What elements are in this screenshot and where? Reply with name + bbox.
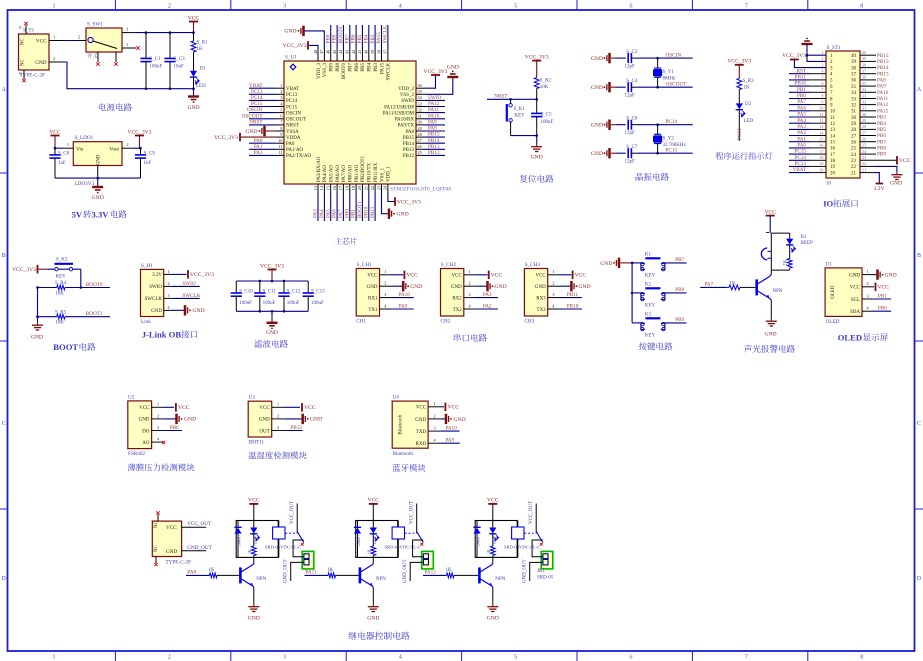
relay ground GND xyxy=(367,604,379,622)
svg-text:PB8: PB8 xyxy=(877,146,886,152)
svg-text:OSCIN: OSCIN xyxy=(286,111,301,116)
relay unit black frame xyxy=(356,521,398,558)
svg-text:PB8: PB8 xyxy=(336,63,341,72)
svg-text:A: A xyxy=(917,87,922,93)
svg-text:26: 26 xyxy=(862,137,866,142)
svg-text:PA2: PA2 xyxy=(797,130,806,136)
svg-text:PB5: PB5 xyxy=(357,34,363,43)
relay indicator LED xyxy=(489,521,498,545)
CH1 pin1 VCC port xyxy=(390,271,418,280)
svg-text:2: 2 xyxy=(168,655,171,661)
svg-text:S_C3: S_C3 xyxy=(174,57,186,62)
svg-text:6: 6 xyxy=(280,114,282,119)
CH2 pin1 VCC port xyxy=(475,271,503,280)
svg-text:GND_OUT: GND_OUT xyxy=(187,545,212,551)
chip pin 15 PA5/AO xyxy=(325,165,334,221)
MCU U1 STM32F103C8T6 body xyxy=(284,55,451,193)
header row pins 8 and 33 xyxy=(789,93,889,102)
J-Link pin2 SWIO net xyxy=(172,281,200,287)
chip pin 10 PA0 xyxy=(249,138,295,147)
svg-text:17: 17 xyxy=(338,186,343,190)
svg-text:TX2: TX2 xyxy=(453,308,463,313)
svg-text:BOOT0: BOOT0 xyxy=(338,26,344,43)
svg-text:21: 21 xyxy=(862,167,866,172)
svg-text:PB14: PB14 xyxy=(877,65,889,71)
svg-text:S_LDO1: S_LDO1 xyxy=(75,135,94,141)
svg-text:1N4007: 1N4007 xyxy=(477,535,481,547)
svg-text:38: 38 xyxy=(851,66,857,71)
relay coil xyxy=(273,521,285,558)
svg-text:13: 13 xyxy=(313,186,318,190)
svg-text:VCC: VCC xyxy=(535,274,546,279)
svg-text:VCC_OUT: VCC_OUT xyxy=(529,501,534,524)
svg-text:2: 2 xyxy=(53,56,55,61)
svg-text:PB12: PB12 xyxy=(877,53,889,59)
svg-text:SWCLK: SWCLK xyxy=(182,293,200,299)
svg-text:PA10/RX: PA10/RX xyxy=(395,118,415,123)
svg-text:PA9: PA9 xyxy=(877,84,886,90)
chip pin 47 VSS_3 xyxy=(319,49,328,77)
svg-text:S_C8: S_C8 xyxy=(58,152,70,157)
svg-text:36: 36 xyxy=(862,75,866,80)
svg-text:SWIO: SWIO xyxy=(401,99,414,104)
svg-text:PB15: PB15 xyxy=(403,136,415,141)
flyback diode 1N4007 xyxy=(354,521,361,558)
svg-text:6: 6 xyxy=(630,3,633,9)
svg-text:3: 3 xyxy=(821,62,823,67)
svg-text:PB11/RX: PB11/RX xyxy=(374,162,379,182)
wire terminal pin2 GND_OUT xyxy=(284,559,304,583)
svg-text:8MHz: 8MHz xyxy=(663,77,677,82)
svg-text:5: 5 xyxy=(514,3,517,9)
svg-text:PC15: PC15 xyxy=(666,148,678,154)
svg-text:GND: GND xyxy=(885,272,897,278)
label 主芯片 xyxy=(335,238,342,245)
svg-text:SRD-05VDC-SL-C: SRD-05VDC-SL-C xyxy=(385,545,421,550)
label 继电器控制电路 xyxy=(348,632,356,640)
svg-text:SRD-05VDC-SL-C: SRD-05VDC-SL-C xyxy=(265,545,301,550)
svg-text:28: 28 xyxy=(851,128,857,133)
svg-text:GND: GND xyxy=(92,195,104,201)
svg-text:100uF: 100uF xyxy=(311,301,324,306)
label 电源电路 xyxy=(99,103,106,111)
svg-text:22: 22 xyxy=(862,161,866,166)
LED D2 xyxy=(736,102,754,141)
capacitor S_C9 1uF xyxy=(135,147,155,178)
svg-text:PB10/TX: PB10/TX xyxy=(368,162,373,182)
svg-text:OSCIN: OSCIN xyxy=(247,107,263,113)
svg-text:PB14: PB14 xyxy=(428,138,440,144)
relay base resistor 1K xyxy=(209,568,240,578)
key K1 wire to net PB7 xyxy=(663,257,686,263)
svg-text:20: 20 xyxy=(830,171,836,176)
svg-text:VCC: VCC xyxy=(166,525,177,531)
relay contact and VCC_OUT feed xyxy=(405,501,424,546)
svg-text:6: 6 xyxy=(630,655,633,661)
svg-text:OSCOUT: OSCOUT xyxy=(666,82,688,88)
push button S_K1 KEY xyxy=(507,98,526,136)
svg-text:GND: GND xyxy=(578,284,590,290)
svg-text:40: 40 xyxy=(851,54,857,59)
svg-text:22: 22 xyxy=(851,165,857,170)
svg-text:GND: GND xyxy=(415,418,426,423)
CH2 pin2 GND port xyxy=(475,281,507,291)
svg-text:31: 31 xyxy=(862,106,866,111)
svg-text:GND: GND xyxy=(97,154,102,165)
svg-text:KEY: KEY xyxy=(645,303,656,308)
svg-text:PA15: PA15 xyxy=(376,32,382,44)
svg-text:2: 2 xyxy=(434,413,436,418)
header row pins 18 and 23 xyxy=(789,155,866,164)
svg-text:S_CH3: S_CH3 xyxy=(525,262,541,268)
svg-text:VBAT: VBAT xyxy=(792,167,806,173)
svg-text:37: 37 xyxy=(851,73,857,78)
svg-text:1: 1 xyxy=(384,269,386,274)
svg-text:PC13: PC13 xyxy=(251,89,263,95)
svg-text:GND: GND xyxy=(410,284,422,290)
svg-text:36: 36 xyxy=(851,79,857,84)
chip pin 31 PA10/RX xyxy=(395,113,445,122)
relay drive net PA8 xyxy=(186,569,210,575)
svg-text:1K: 1K xyxy=(744,86,751,91)
svg-text:VCC_3V3: VCC_3V3 xyxy=(260,263,284,269)
svg-text:1: 1 xyxy=(53,35,55,40)
svg-text:VDD_1: VDD_1 xyxy=(387,166,392,182)
U4 pin3 net PA10 xyxy=(440,426,459,432)
svg-text:B1: B1 xyxy=(801,235,807,240)
svg-text:VCC: VCC xyxy=(36,39,47,45)
resistor S_R1 1K xyxy=(191,33,208,71)
connector S_H1 J-Link xyxy=(141,263,172,325)
chip pin 32 PA11/USB/DM xyxy=(383,107,445,116)
svg-text:KEY: KEY xyxy=(645,273,656,278)
power port VCC_3V3 at chip VDDA xyxy=(214,133,275,142)
svg-text:S_C12: S_C12 xyxy=(287,289,301,294)
chip pin 26 PB13 xyxy=(403,144,445,153)
ground GND boot xyxy=(31,322,43,341)
svg-text:PC13: PC13 xyxy=(286,93,298,98)
svg-text:GND: GND xyxy=(266,330,278,336)
svg-text:S_R3: S_R3 xyxy=(743,79,755,84)
svg-text:37: 37 xyxy=(862,69,866,74)
svg-text:S_R2: S_R2 xyxy=(540,79,552,84)
buzzer element xyxy=(761,248,771,270)
chip pin 46 PB9 xyxy=(325,25,334,72)
chip pin 21 PB10/TX xyxy=(363,162,372,221)
svg-text:29: 29 xyxy=(851,122,857,127)
CH1 pin4 net PA9 xyxy=(390,303,413,309)
svg-text:GND: GND xyxy=(591,123,603,129)
chip pin 40 PB4 xyxy=(363,25,372,72)
svg-text:PB15: PB15 xyxy=(428,132,440,138)
svg-text:PB10: PB10 xyxy=(567,303,579,309)
svg-text:S_C10: S_C10 xyxy=(239,289,253,294)
chip pin 9 VDDA xyxy=(275,132,301,141)
svg-text:40: 40 xyxy=(862,50,866,55)
chip pin 12 PA2/TX/AO xyxy=(249,150,311,159)
chip pin 44 BOOT0 xyxy=(338,25,347,79)
svg-text:9: 9 xyxy=(280,132,282,137)
label 串口电路 xyxy=(454,334,461,342)
svg-text:CH1: CH1 xyxy=(356,319,366,325)
svg-text:100uF: 100uF xyxy=(263,301,276,306)
svg-text:PA1/AO: PA1/AO xyxy=(286,148,303,153)
header row pins 11 and 30 xyxy=(789,112,886,121)
svg-text:NPN: NPN xyxy=(376,577,386,582)
svg-text:VCC_3V3: VCC_3V3 xyxy=(525,54,549,60)
wire NO contact to terminal pin1 xyxy=(293,540,304,557)
svg-text:PA9/TX: PA9/TX xyxy=(398,124,415,129)
svg-text:PB10: PB10 xyxy=(363,206,369,218)
svg-text:GND_OUT: GND_OUT xyxy=(284,559,289,583)
svg-text:1N4007: 1N4007 xyxy=(238,535,242,547)
module U2 FSR402 pressure sensor xyxy=(128,394,165,457)
U3 pin1 VCC port xyxy=(284,403,315,412)
svg-text:D: D xyxy=(2,576,7,582)
wire chip VDD_3 to VCC_3V3 port xyxy=(283,41,318,50)
header row pins 20 and 21 xyxy=(789,167,866,176)
svg-text:PA9: PA9 xyxy=(399,303,408,309)
wire key down to BOOT0 xyxy=(80,269,83,289)
svg-text:VBAT: VBAT xyxy=(249,83,263,89)
svg-text:GND: GND xyxy=(367,616,379,622)
svg-text:41: 41 xyxy=(357,50,362,54)
svg-text:PB1: PB1 xyxy=(797,87,806,93)
svg-text:34: 34 xyxy=(851,91,857,96)
svg-text:NRST: NRST xyxy=(249,120,263,126)
svg-text:PA8: PA8 xyxy=(406,130,415,135)
svg-text:GND: GND xyxy=(367,285,378,290)
svg-text:PB1: PB1 xyxy=(878,293,887,299)
svg-text:LDO3V3: LDO3V3 xyxy=(75,181,95,187)
svg-text:1: 1 xyxy=(53,655,56,661)
svg-text:25: 25 xyxy=(862,143,866,148)
capacitor S_C5 100nF xyxy=(531,99,553,135)
svg-text:45: 45 xyxy=(332,50,337,54)
svg-text:GND: GND xyxy=(259,418,270,423)
CH3 pin1 VCC port xyxy=(559,271,587,280)
svg-text:16: 16 xyxy=(819,143,823,148)
svg-text:16: 16 xyxy=(830,147,836,152)
svg-text:1: 1 xyxy=(53,3,56,9)
svg-text:S_T1: S_T1 xyxy=(23,28,35,34)
svg-text:GND_OUT: GND_OUT xyxy=(403,559,408,583)
svg-text:PA12: PA12 xyxy=(428,101,440,107)
svg-text:PA2: PA2 xyxy=(483,303,492,309)
key K2 wire to net PB8 xyxy=(663,287,686,293)
svg-text:JK1: JK1 xyxy=(537,569,546,574)
svg-text:24: 24 xyxy=(851,153,857,158)
svg-text:VCC: VCC xyxy=(764,209,776,215)
svg-text:13: 13 xyxy=(819,124,823,129)
buzzer B1 BEEP body frame xyxy=(766,232,813,251)
capacitor S_C13 100uF xyxy=(303,281,326,311)
svg-text:PB3: PB3 xyxy=(370,34,376,43)
push key S_K2 xyxy=(48,258,81,280)
svg-text:1K: 1K xyxy=(248,549,252,554)
svg-text:SDA: SDA xyxy=(850,310,860,315)
svg-text:5: 5 xyxy=(514,655,517,661)
svg-text:PB11: PB11 xyxy=(567,292,579,298)
svg-text:PB13: PB13 xyxy=(877,59,889,65)
label 晶振电路 xyxy=(636,173,643,181)
filter bottom rail xyxy=(236,310,308,313)
svg-text:SWCLK: SWCLK xyxy=(145,297,163,302)
svg-text:12: 12 xyxy=(278,150,282,155)
svg-text:AO: AO xyxy=(142,441,150,446)
svg-text:NRST: NRST xyxy=(494,93,508,99)
svg-text:VCC: VCC xyxy=(899,158,911,164)
relay transistor NPN xyxy=(240,557,266,603)
svg-text:3: 3 xyxy=(280,95,282,100)
svg-text:GND: GND xyxy=(487,616,499,622)
capacitor S_C10 100uF xyxy=(231,281,254,311)
svg-text:OSCOUT: OSCOUT xyxy=(242,113,264,119)
svg-text:39: 39 xyxy=(370,50,375,54)
svg-text:K3: K3 xyxy=(645,312,652,317)
wire VCC to LDO pin1 xyxy=(55,147,63,149)
chip pin 6 OSCOUT xyxy=(242,113,306,122)
svg-text:PB11: PB11 xyxy=(795,75,807,81)
svg-text:K1: K1 xyxy=(645,252,652,257)
svg-text:23: 23 xyxy=(376,186,381,190)
header row pins 19 and 22 xyxy=(789,161,866,170)
svg-text:GND: GND xyxy=(600,261,612,267)
wire NO contact to terminal pin1 xyxy=(532,540,543,557)
ground GND reset xyxy=(531,136,543,161)
chip pin 33 PA12/USB/DP xyxy=(384,101,445,110)
chip pin 2 PC13 xyxy=(249,89,298,98)
svg-text:7: 7 xyxy=(280,120,282,125)
svg-text:S_C1: S_C1 xyxy=(150,57,162,62)
wire switch to VCC node xyxy=(136,32,194,34)
svg-text:13: 13 xyxy=(830,128,836,133)
svg-text:32: 32 xyxy=(862,99,866,104)
svg-text:33: 33 xyxy=(851,97,857,102)
svg-text:RXD: RXD xyxy=(416,442,427,447)
svg-text:32.768KHz: 32.768KHz xyxy=(663,143,687,148)
svg-text:42: 42 xyxy=(351,50,356,54)
svg-text:S_H1: S_H1 xyxy=(141,263,153,269)
svg-text:32: 32 xyxy=(418,107,422,112)
wire chip VSS_2 to GND xyxy=(425,65,459,95)
CH1 pin2 GND port xyxy=(390,281,422,291)
header row pins 15 and 26 xyxy=(789,136,886,145)
svg-text:3.3V: 3.3V xyxy=(152,273,162,278)
wire terminal pin2 GND_OUT xyxy=(403,559,423,583)
relay transistor NPN xyxy=(360,557,386,603)
power port VCC_3V3 run LED xyxy=(727,59,751,79)
svg-text:FSR402: FSR402 xyxy=(128,451,145,457)
relay transistor NPN xyxy=(479,557,505,603)
power port GND at chip VSSA xyxy=(245,126,275,136)
svg-text:2: 2 xyxy=(127,142,129,147)
svg-text:3.3V: 3.3V xyxy=(873,186,884,192)
svg-text:NC: NC xyxy=(21,38,26,45)
svg-text:PC13: PC13 xyxy=(737,128,743,140)
svg-text:PA11: PA11 xyxy=(306,569,318,575)
svg-text:12pF: 12pF xyxy=(625,64,636,69)
left rail boot xyxy=(37,288,39,323)
svg-text:PA11: PA11 xyxy=(428,107,440,113)
svg-text:PB1/AO: PB1/AO xyxy=(355,164,360,182)
chip pin 3 PC14 xyxy=(249,95,298,104)
svg-text:2: 2 xyxy=(168,281,170,286)
svg-text:30: 30 xyxy=(851,116,857,121)
svg-text:PA1: PA1 xyxy=(797,136,806,142)
svg-text:S_U1: S_U1 xyxy=(285,55,297,61)
svg-text:VDD_2: VDD_2 xyxy=(398,87,414,92)
svg-text:2: 2 xyxy=(867,281,869,286)
svg-text:RX2: RX2 xyxy=(452,296,462,301)
U2 pin2 GND port xyxy=(164,414,196,424)
svg-text:S_CH1: S_CH1 xyxy=(357,262,373,268)
svg-text:PB4: PB4 xyxy=(363,34,369,43)
chip pin 23 VSS_1 xyxy=(376,167,385,193)
svg-text:2: 2 xyxy=(384,281,386,286)
svg-text:PB13: PB13 xyxy=(428,144,440,150)
svg-text:40: 40 xyxy=(364,50,369,54)
svg-text:PB7: PB7 xyxy=(877,139,886,145)
svg-text:1K: 1K xyxy=(784,259,789,266)
U4 pin2 GND port xyxy=(440,414,465,424)
ground GND filter xyxy=(266,311,278,336)
svg-text:PA6/AO: PA6/AO xyxy=(336,165,341,182)
capacitor S_C2 12pF with GND, net OSCIN xyxy=(591,50,693,70)
wire chip VDD_2 to VCC_3V3 port xyxy=(424,69,448,88)
svg-text:12pF: 12pF xyxy=(625,94,636,99)
relay drive net PA12 xyxy=(423,569,447,575)
svg-text:18: 18 xyxy=(830,159,836,164)
capacitor S_C3 10uF xyxy=(164,33,185,89)
svg-text:SWCLK: SWCLK xyxy=(383,25,389,43)
header row pins 9 and 32 xyxy=(789,99,889,108)
header GND at top xyxy=(802,38,827,62)
svg-text:Vout: Vout xyxy=(109,147,119,153)
svg-text:1: 1 xyxy=(469,269,471,274)
svg-text:VCC: VCC xyxy=(406,273,418,279)
svg-text:K2: K2 xyxy=(645,282,652,287)
svg-text:SWIO: SWIO xyxy=(149,285,162,290)
svg-text:12pF: 12pF xyxy=(625,131,636,136)
svg-text:LED: LED xyxy=(196,84,206,89)
svg-text:PA8: PA8 xyxy=(877,78,886,84)
chip pin 13 PA3/RX/AO xyxy=(313,156,322,221)
header row pins 12 and 29 xyxy=(789,118,886,127)
svg-text:BOOT0: BOOT0 xyxy=(86,282,103,288)
svg-text:PB7: PB7 xyxy=(344,34,350,43)
relay contact and VCC_OUT feed xyxy=(524,501,543,546)
svg-text:PB8: PB8 xyxy=(332,34,338,43)
chip pin 24 VDD_1 xyxy=(383,166,392,193)
chip pin 34 SWIO xyxy=(401,95,445,104)
relay coil xyxy=(392,521,404,558)
svg-text:OUT: OUT xyxy=(259,429,269,434)
header S_ST1 body xyxy=(826,45,860,187)
header row pins 16 and 25 xyxy=(789,143,886,152)
label 滤波电路 xyxy=(254,340,262,348)
svg-text:GND: GND xyxy=(591,56,603,62)
chip pin 45 PB8 xyxy=(332,25,341,72)
svg-text:26: 26 xyxy=(851,141,857,146)
U4 pin1 VCC port xyxy=(440,403,459,412)
svg-text:VCC: VCC xyxy=(850,286,861,291)
wire T1 GND to bottom rail xyxy=(61,62,194,89)
relay drive net PA11 xyxy=(305,569,329,575)
svg-text:D2: D2 xyxy=(745,102,752,107)
chip pin 38 PA15 xyxy=(376,25,385,74)
power port VCC_3V3 boot xyxy=(12,265,48,274)
